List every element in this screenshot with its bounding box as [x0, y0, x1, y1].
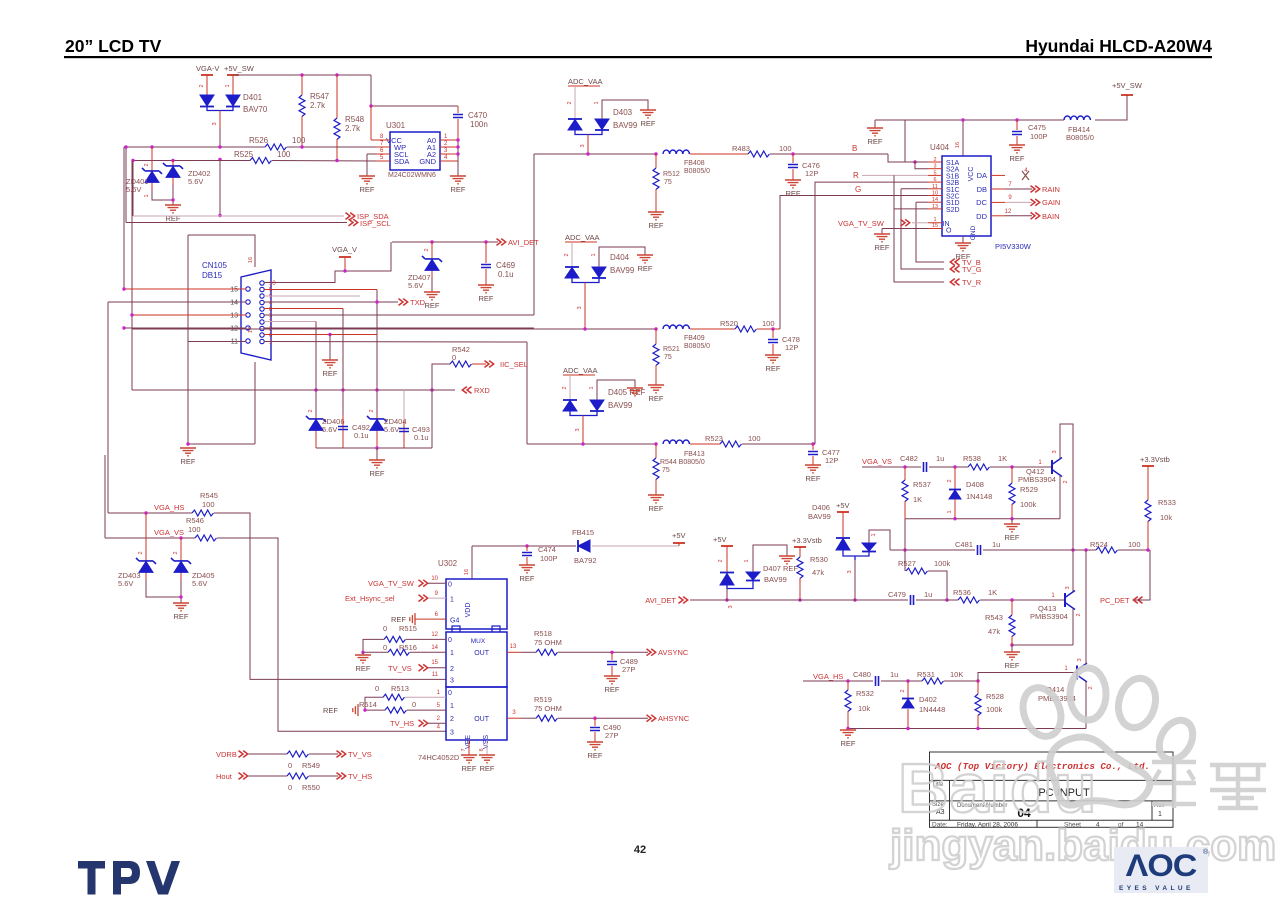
- svg-text:+5V: +5V: [713, 535, 727, 544]
- svg-text:REF: REF: [1005, 533, 1020, 542]
- wire R to U404: [815, 182, 928, 444]
- net arrow GAIN: [1031, 199, 1040, 206]
- net arrow TXD: [399, 299, 408, 306]
- ground REF U404 top: [867, 128, 883, 146]
- label C474 value: [540, 554, 558, 563]
- wire REF stem R515: [362, 652, 364, 655]
- svg-text:REF: REF: [605, 685, 620, 694]
- svg-text:BAIN: BAIN: [1042, 212, 1060, 221]
- wire C476 top: [792, 154, 794, 163]
- svg-text:2: 2: [562, 386, 568, 389]
- label R532: [856, 689, 874, 698]
- label D404 value: [610, 266, 635, 275]
- wire S1D: [916, 201, 928, 203]
- svg-text:0: 0: [383, 643, 387, 652]
- capacitor C478: [768, 340, 778, 343]
- label FB414 value: [1066, 133, 1094, 142]
- pin label 15: [431, 660, 438, 666]
- resistor R550: [287, 773, 308, 779]
- label FB409: [684, 335, 705, 342]
- wire cluster REF stem: [376, 448, 378, 460]
- label REF R514: [323, 706, 338, 715]
- ground REF D403: [640, 110, 656, 128]
- pin label 2: [437, 716, 441, 722]
- resistor R536 1K: [958, 597, 979, 603]
- net arrow VGA_TV_SW: [901, 219, 910, 226]
- junction D406 AVI bus: [853, 598, 856, 601]
- power +5V_SW: [224, 64, 255, 75]
- power ADC_VAA B: [568, 77, 602, 86]
- wire R514 to pin5: [407, 709, 446, 711]
- pin label 10: [431, 576, 438, 582]
- wire R543 top lead: [1011, 600, 1013, 615]
- svg-text:R549: R549: [302, 761, 320, 770]
- net TV_VS U302: [388, 664, 412, 673]
- svg-text:REF: REF: [480, 764, 495, 773]
- wire C492 stem: [342, 415, 344, 448]
- pin label 3: [847, 570, 853, 573]
- svg-text:U302: U302: [438, 559, 458, 568]
- label D405: [608, 388, 645, 397]
- wire pin17 to REF: [188, 443, 255, 445]
- label D406: [812, 503, 830, 512]
- label Q414 part: [1038, 694, 1076, 703]
- AOC logo: [1114, 847, 1209, 893]
- net TV_HS out: [348, 772, 372, 781]
- pin label 2: [1076, 613, 1082, 616]
- wire ADC_VAA stem G: [571, 242, 573, 267]
- resistor R516: [388, 649, 409, 655]
- wire TV_VS pin15: [428, 667, 446, 669]
- resistor R512: [653, 168, 659, 190]
- label D405 value: [608, 401, 633, 410]
- wire pin6 REF stem: [329, 335, 331, 361]
- svg-text:U301: U301: [386, 121, 406, 130]
- wire row160 left: [132, 160, 250, 162]
- wire pin3 row B: [264, 314, 534, 316]
- ground REF D407: [779, 556, 795, 564]
- capacitor C470: [453, 115, 463, 118]
- label R523: [705, 434, 723, 443]
- svg-text:1u: 1u: [924, 590, 932, 599]
- wire OUT13: [521, 651, 536, 653]
- label C476: [802, 161, 820, 170]
- svg-text:ADC_VAA: ADC_VAA: [565, 233, 599, 242]
- junction x377 rxd: [375, 388, 378, 391]
- pin label 3: [728, 605, 734, 608]
- junction x316 rxd: [314, 388, 317, 391]
- pin label 3: [575, 428, 581, 431]
- wire C470 top lead: [457, 106, 459, 113]
- pin label 11: [432, 672, 439, 678]
- label R537 value: [913, 495, 922, 504]
- svg-text:100k: 100k: [934, 559, 951, 568]
- svg-text:MUX: MUX: [471, 638, 486, 645]
- wire rail corner down: [370, 75, 372, 106]
- svg-text:2.7k: 2.7k: [345, 124, 361, 133]
- ground REF under C470: [450, 176, 466, 194]
- U301 pin 8: [376, 134, 390, 140]
- wire CN105 left frame: [187, 235, 189, 444]
- svg-text:13: 13: [510, 644, 517, 650]
- label R538: [963, 454, 981, 463]
- wire REF stem Q412 cell: [1011, 519, 1013, 524]
- resistor R483: [748, 151, 769, 157]
- svg-text:2: 2: [933, 157, 936, 163]
- svg-text:R483: R483: [732, 144, 750, 153]
- pin label 2: [424, 248, 430, 251]
- wire VGA_HS row left: [803, 680, 848, 682]
- svg-text:U404: U404: [930, 143, 950, 152]
- label C492: [352, 423, 370, 432]
- label R538 value: [998, 454, 1007, 463]
- junction R533 node: [1146, 548, 1149, 551]
- pin label 2: [369, 409, 375, 412]
- label ZD403 value: [118, 579, 133, 588]
- svg-text:12: 12: [1005, 209, 1012, 215]
- label ZD406: [322, 417, 345, 426]
- label C476 value: [805, 169, 818, 178]
- label Q413: [1038, 604, 1056, 613]
- wire to Q414 base: [978, 673, 1077, 682]
- svg-text:R515: R515: [399, 624, 417, 633]
- ground REF Q412 cell: [1004, 524, 1020, 542]
- wire C480 to R531: [881, 680, 922, 682]
- svg-text:R520: R520: [720, 319, 738, 328]
- label R514 zero: [412, 700, 416, 709]
- wire pin8 row: [264, 308, 343, 310]
- svg-text:R527: R527: [898, 559, 916, 568]
- wire to U301 VCC: [370, 106, 372, 140]
- pin label 16: [464, 569, 470, 575]
- wire ADC_VAA stem: [574, 86, 576, 119]
- ground REF under U301: [359, 176, 375, 194]
- svg-text:D408: D408: [966, 480, 984, 489]
- svg-text:1u: 1u: [936, 454, 944, 463]
- wire pin17 down: [254, 362, 256, 444]
- power ADC_VAA underline 3: [563, 374, 595, 376]
- wire R550 to TV_HS: [309, 775, 338, 777]
- pin label 12: [431, 632, 438, 638]
- pin label VCC: [968, 167, 975, 182]
- label R519: [534, 695, 552, 704]
- U302 OUT pin13: [507, 651, 521, 653]
- ground REF C474: [519, 565, 535, 583]
- svg-text:2: 2: [308, 409, 314, 412]
- wire R544 top: [655, 444, 657, 458]
- svg-text:REF: REF: [786, 189, 801, 198]
- wire R527 right riser: [928, 571, 947, 600]
- wire pin5 row: [264, 289, 377, 291]
- U404 left pin stubs: [928, 157, 942, 229]
- pin label 0: [448, 637, 452, 644]
- svg-text:+5V_SW: +5V_SW: [224, 64, 255, 73]
- svg-text:1u: 1u: [890, 670, 898, 679]
- svg-text:REF: REF: [649, 221, 664, 230]
- net Hout: [216, 772, 233, 781]
- wire ZD407 top: [431, 242, 433, 258]
- svg-text:+3.3Vstb: +3.3Vstb: [792, 536, 822, 545]
- label FB414: [1068, 125, 1090, 134]
- svg-text:0.1u: 0.1u: [498, 270, 514, 279]
- diode FB415 BA792: [578, 540, 590, 552]
- wire S1A: [905, 161, 928, 163]
- svg-text:47k: 47k: [812, 568, 824, 577]
- wire R542 left: [432, 364, 450, 390]
- ground REF CN105: [180, 448, 196, 466]
- capacitor C493: [399, 429, 409, 432]
- wire G bus left: [132, 328, 656, 330]
- svg-text:3: 3: [1052, 450, 1058, 453]
- svg-text:0: 0: [448, 690, 452, 697]
- svg-text:DB15: DB15: [202, 271, 223, 280]
- ground REF VEE: [461, 755, 477, 773]
- svg-text:100: 100: [202, 500, 215, 509]
- label R547: [310, 92, 330, 101]
- label ZD404 value: [384, 425, 399, 434]
- wire D407 to REF: [753, 545, 787, 572]
- wire pin4 row TXD: [264, 301, 398, 303]
- pin label 1: [591, 253, 597, 256]
- svg-text:EYES VALUE: EYES VALUE: [1119, 885, 1194, 892]
- svg-text:0: 0: [383, 624, 387, 633]
- junction C476: [791, 152, 794, 155]
- net label R: [853, 171, 859, 180]
- svg-text:B: B: [852, 144, 857, 153]
- IC U301 M24C02WMN6: [386, 132, 440, 170]
- wire R537 bottom lead: [904, 501, 906, 519]
- wire R516 to pin14: [410, 651, 446, 653]
- pin label VDD: [465, 603, 472, 618]
- wire TV_B route: [916, 202, 944, 262]
- svg-text:ΛOC: ΛOC: [1126, 847, 1197, 882]
- wire left vertical x108: [107, 302, 109, 513]
- net arrow VGA_TV_SW U302: [419, 580, 428, 587]
- net arrow Hout: [239, 773, 248, 780]
- wire S2A: [915, 162, 928, 169]
- svg-text:100: 100: [277, 150, 291, 159]
- power +3.3Vstb right: [1140, 455, 1170, 466]
- wire pin10 to AVI_DET: [264, 242, 391, 283]
- pin label 16: [955, 142, 961, 148]
- wire x377 vertical: [376, 290, 378, 416]
- pin label 2: [1088, 686, 1094, 689]
- svg-text:C469: C469: [496, 261, 516, 270]
- label D408 value: [966, 492, 992, 501]
- junction C474: [525, 544, 528, 547]
- label R548 value: [345, 124, 361, 133]
- label R548: [345, 115, 365, 124]
- svg-text:REF: REF: [841, 739, 856, 748]
- svg-text:R523: R523: [705, 434, 723, 443]
- junction pin6 REF: [328, 333, 331, 336]
- wire R513 to pin1: [405, 696, 446, 698]
- label R521: [663, 346, 680, 353]
- svg-text:14: 14: [230, 300, 238, 307]
- net arrow RAIN: [1031, 186, 1040, 193]
- pin label 1: [594, 101, 600, 104]
- svg-text:11: 11: [932, 184, 938, 190]
- net GAIN: [1042, 198, 1060, 207]
- wire VGA-V to D401: [206, 75, 208, 95]
- junction R521: [654, 327, 657, 330]
- capacitor C489: [607, 662, 617, 665]
- svg-text:D405 REF: D405 REF: [608, 388, 645, 397]
- svg-text:R528: R528: [986, 692, 1004, 701]
- pin label 4: [1024, 168, 1028, 174]
- svg-text:75 OHM: 75 OHM: [534, 638, 562, 647]
- svg-text:REF: REF: [174, 612, 189, 621]
- junction zener join: [171, 198, 174, 201]
- wire R547 bottom lead: [301, 116, 303, 147]
- capacitor C476: [788, 165, 798, 168]
- junction R528 bottom: [976, 727, 979, 730]
- pin label 2: [308, 409, 314, 412]
- label C469: [496, 261, 516, 270]
- pin label 6: [435, 612, 439, 618]
- wire pin1 row R: [264, 341, 527, 344]
- wire S1C: [901, 188, 928, 190]
- net VDRB: [216, 750, 237, 759]
- wire ISP_SDA vertical: [132, 161, 134, 217]
- pin label 14: [431, 645, 438, 651]
- svg-text:R530: R530: [810, 555, 828, 564]
- wire +5V stem: [678, 543, 680, 546]
- svg-text:8: 8: [479, 748, 485, 751]
- wire REF stem: [874, 120, 876, 128]
- wire R527 left riser: [904, 519, 906, 571]
- zener ZD406 5.6V: [306, 416, 326, 438]
- svg-text:1K: 1K: [988, 588, 997, 597]
- pin label 1: [589, 386, 595, 389]
- ground REF VSS: [479, 755, 495, 773]
- junction pin15: [122, 287, 125, 290]
- label R543: [985, 613, 1003, 622]
- net arrow AHSYNC: [647, 715, 656, 722]
- resistor R533 10k: [1145, 500, 1151, 521]
- junction U301 right tie: [456, 152, 459, 155]
- svg-text:FB413: FB413: [684, 451, 705, 458]
- svg-text:3: 3: [1065, 586, 1071, 589]
- junction pin12: [122, 326, 125, 329]
- resistor R548: [334, 118, 340, 140]
- label U404 part: [995, 242, 1032, 251]
- pin label OUT: [474, 650, 490, 657]
- svg-text:REF: REF: [391, 615, 406, 624]
- net IIC_SEL: [500, 360, 528, 369]
- svg-text:100k: 100k: [1020, 500, 1037, 509]
- wire R528 top lead: [977, 681, 979, 694]
- svg-text:1: 1: [589, 386, 595, 389]
- svg-text:100: 100: [779, 144, 792, 153]
- svg-text:REF: REF: [323, 369, 338, 378]
- power +5V D407: [713, 535, 733, 546]
- wire to R483: [690, 153, 748, 155]
- svg-text:BAV99: BAV99: [608, 401, 633, 410]
- label U404: [930, 143, 950, 152]
- net arrow TV_VS out: [337, 751, 346, 758]
- wire C475 bottom: [1016, 136, 1018, 145]
- net arrow TV_VS U302: [419, 664, 428, 671]
- wire D408 top lead: [954, 467, 956, 490]
- wire x343 vertical: [342, 309, 344, 416]
- CN105 right pins 10-1: [269, 281, 276, 346]
- pin label 1: [744, 559, 750, 562]
- svg-text:12P: 12P: [805, 169, 818, 178]
- wire R530 top: [799, 547, 801, 557]
- ground REF pin6: [322, 360, 338, 378]
- svg-text:74HC4052D: 74HC4052D: [418, 753, 460, 762]
- wire cluster right edge: [431, 390, 433, 448]
- svg-text:REF: REF: [479, 294, 494, 303]
- resistor R521: [653, 344, 659, 365]
- wire BAIN: [1005, 215, 1032, 217]
- IC U404 PI5V330W: [942, 156, 991, 240]
- svg-text:REF: REF: [370, 469, 385, 478]
- svg-text:3: 3: [1077, 658, 1083, 661]
- pin label 2: [718, 559, 724, 562]
- resistor R544: [653, 458, 659, 479]
- power +5V D406: [836, 501, 850, 512]
- label ZD405 value: [192, 579, 207, 588]
- svg-text:15: 15: [431, 660, 438, 666]
- wire row160 right to SDA: [272, 160, 376, 163]
- header title right: [1025, 36, 1212, 56]
- label C482: [900, 454, 918, 463]
- svg-text:M24C02WMN6: M24C02WMN6: [388, 172, 436, 179]
- junction R529 top: [1010, 465, 1013, 468]
- svg-text:1N4148: 1N4148: [966, 492, 992, 501]
- wire to AVSYNC: [558, 651, 648, 653]
- svg-text:0: 0: [288, 783, 292, 792]
- junction rail R548: [335, 73, 338, 76]
- label FB409 value: [684, 343, 710, 350]
- resistor R538 1K: [968, 464, 989, 470]
- pin label 3: [1065, 586, 1071, 589]
- wire R530 bottom: [799, 578, 801, 600]
- label FB415 value: [574, 556, 597, 565]
- label C490: [603, 723, 621, 732]
- wire R532 bottom lead: [847, 711, 849, 729]
- wire C477 bottom: [812, 456, 814, 465]
- svg-text:1: 1: [594, 101, 600, 104]
- inductor FB414 B0805/0: [1064, 116, 1090, 120]
- pin label VSS: [483, 735, 490, 749]
- svg-text:47k: 47k: [988, 627, 1000, 636]
- wire VGA_TV_SW: [912, 222, 928, 224]
- wire D402 top lead: [907, 681, 909, 698]
- wire FB415 to +5V: [592, 545, 679, 547]
- wire C493 stem: [403, 420, 405, 448]
- label R515 zero: [383, 624, 387, 633]
- net VGA_TV_SW U302: [368, 579, 415, 588]
- label ZD404: [384, 417, 407, 426]
- wire D405 to REF: [597, 380, 635, 400]
- svg-text:75: 75: [662, 467, 670, 474]
- junction C478: [771, 327, 774, 330]
- wire D401 common down: [219, 128, 221, 147]
- net arrow ISP_SCL: [349, 219, 358, 226]
- svg-text:5: 5: [933, 170, 936, 176]
- svg-text:2: 2: [138, 551, 144, 554]
- wire x316 vertical: [315, 322, 317, 416]
- wire RAIN: [1005, 188, 1032, 190]
- svg-text:100: 100: [292, 136, 306, 145]
- ground REF C477: [805, 465, 821, 483]
- svg-text:2: 2: [900, 689, 906, 692]
- wire ZD405 top: [180, 538, 182, 560]
- svg-text:27P: 27P: [605, 731, 618, 740]
